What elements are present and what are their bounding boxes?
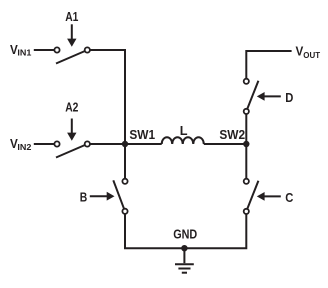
arrow D <box>257 92 281 101</box>
label B <box>80 191 88 205</box>
switch C <box>244 179 259 214</box>
svg-text:C: C <box>285 191 293 205</box>
arrow B <box>90 192 115 201</box>
wire switch A1 to top-left corner and down to SW1 <box>87 50 125 144</box>
switch A1 <box>54 47 90 63</box>
arrow A1 <box>67 24 76 47</box>
wire switch D bottom to node SW2 <box>245 111 247 144</box>
svg-text:IN1: IN1 <box>17 48 31 58</box>
svg-text:B: B <box>80 191 88 205</box>
label A1 <box>65 10 78 24</box>
node SW2 junction dot <box>243 141 249 147</box>
svg-text:A2: A2 <box>65 101 78 115</box>
svg-text:OUT: OUT <box>303 50 321 60</box>
svg-text:A1: A1 <box>65 10 78 24</box>
wire inductor to node SW2 <box>204 143 247 145</box>
svg-text:GND: GND <box>173 228 197 242</box>
wire bottom rail switch B to switch C through GND <box>125 211 246 248</box>
label D <box>285 91 293 105</box>
arrow C <box>257 192 281 201</box>
node GND junction dot <box>181 245 187 251</box>
node SW1 junction dot <box>122 141 128 147</box>
label A2 <box>65 101 78 115</box>
wire VOUT horizontal and down to switch D <box>246 51 291 81</box>
switch A2 <box>54 141 90 157</box>
svg-text:D: D <box>285 91 293 105</box>
label SW2 <box>219 128 245 142</box>
switch B <box>113 179 127 214</box>
label VIN1 <box>10 43 32 58</box>
label SW1 <box>129 128 155 142</box>
inductor L <box>162 137 204 144</box>
wire VIN1 lead <box>34 49 57 51</box>
ground <box>175 248 194 273</box>
svg-text:L: L <box>180 124 188 138</box>
label VOUT <box>296 45 321 60</box>
arrow A2 <box>67 119 76 141</box>
label VIN2 <box>10 137 32 152</box>
wire VIN2 lead <box>34 143 57 145</box>
label C <box>285 191 293 205</box>
label L <box>180 124 188 138</box>
switch D <box>244 79 259 114</box>
svg-text:IN2: IN2 <box>17 142 31 152</box>
label GND <box>173 228 197 242</box>
svg-text:SW1: SW1 <box>129 128 155 142</box>
svg-text:SW2: SW2 <box>219 128 245 142</box>
wire switch A2 to node SW1 and on to inductor <box>87 143 161 145</box>
wire node SW2 down to switch C <box>245 144 247 181</box>
wire node SW1 down to switch B <box>124 144 126 181</box>
